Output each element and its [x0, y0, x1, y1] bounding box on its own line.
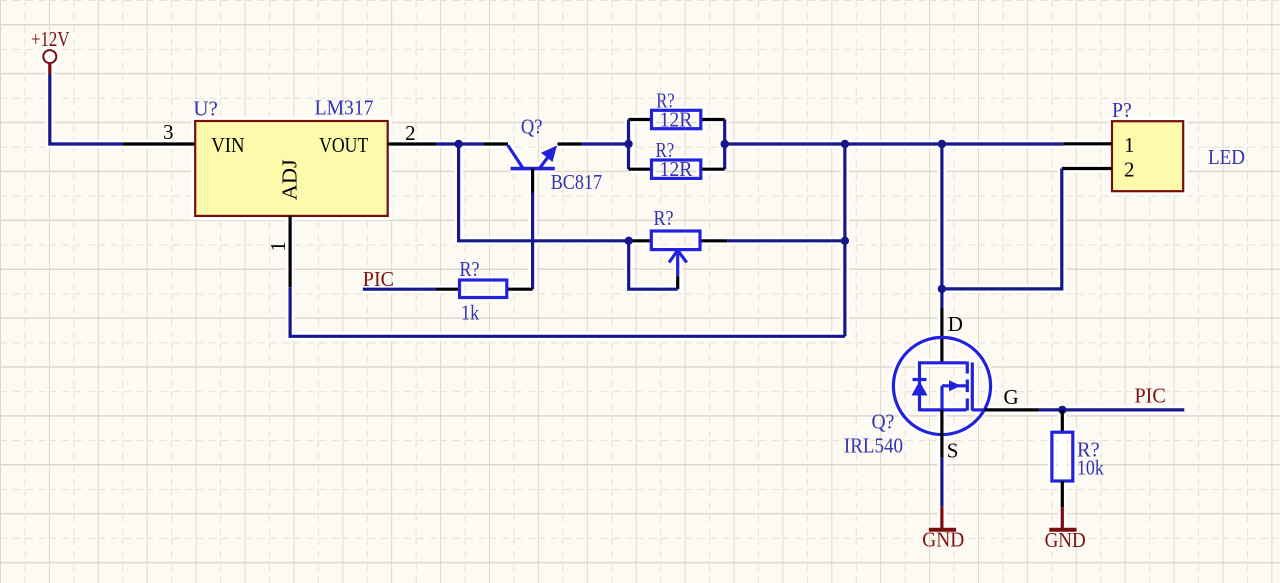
svg-text:3: 3: [163, 120, 174, 144]
resistor R? 10k: [1052, 410, 1104, 507]
P? pin 2: [1062, 158, 1135, 182]
wire P? pin2 down to drain bus: [942, 169, 1062, 289]
transistor Q? base pin: [531, 169, 534, 193]
junction VOUT node: [454, 140, 462, 148]
svg-text:VIN: VIN: [211, 133, 244, 157]
svg-text:Q?: Q?: [872, 409, 895, 433]
wire base down to 1k: [531, 193, 534, 290]
svg-text:GND: GND: [922, 528, 964, 552]
svg-text:LM317: LM317: [315, 96, 374, 120]
svg-text:1: 1: [266, 241, 290, 252]
junction drain node: [938, 285, 946, 293]
svg-text:S: S: [947, 438, 959, 462]
resistor R? 12R (bottom): [629, 138, 725, 181]
ground GND (source): [922, 506, 964, 551]
Q? IRL540 source pin: [940, 410, 943, 458]
svg-text:VOUT: VOUT: [319, 133, 368, 157]
power port +12V: [31, 27, 70, 74]
Q? IRL540 gate pin: [985, 408, 1039, 411]
svg-text:PIC: PIC: [363, 267, 394, 291]
transistor Q? IRL540 MOSFET: [844, 337, 991, 457]
transistor Q? emitter pin: [558, 142, 582, 145]
wire VOUT to node: [436, 142, 484, 145]
svg-text:BC817: BC817: [551, 170, 602, 194]
wire PIC to 1k: [363, 288, 436, 291]
wire right bus of 12R pair: [723, 120, 726, 170]
P? pin 1: [1064, 133, 1135, 157]
wire mid vertical down to ADJ bus: [843, 144, 846, 336]
wire gate to PIC: [1039, 408, 1184, 411]
svg-text:2: 2: [405, 121, 416, 145]
svg-text:U?: U?: [193, 97, 218, 121]
junction left of 12R pair: [624, 140, 632, 148]
svg-text:IRL540: IRL540: [844, 434, 903, 458]
transistor Q? IRL540 drain pin: [940, 308, 943, 363]
resistor R? 12R (top): [629, 89, 725, 132]
potentiometer wiper pin: [676, 276, 679, 289]
wire ADJ down and across: [290, 287, 845, 336]
wire halo underlay: [43, 50, 1184, 530]
svg-text:PIC: PIC: [1135, 383, 1166, 407]
svg-text:GND: GND: [1045, 528, 1086, 552]
svg-text:ADJ: ADJ: [278, 159, 302, 200]
wire emitter to 12R pair: [582, 142, 629, 145]
svg-text:2: 2: [1124, 158, 1135, 182]
wire node down to pot row: [459, 144, 629, 241]
transistor Q? BC817: [508, 115, 602, 194]
wire 12R pair to node: [725, 142, 942, 145]
wire left bus of 12R pair: [627, 120, 630, 170]
junction mid bus: [841, 140, 849, 148]
svg-text:Q?: Q?: [521, 115, 543, 139]
svg-text:1: 1: [1124, 133, 1135, 157]
svg-text:R?: R?: [654, 206, 674, 230]
op-amp U? LM317 body: [195, 121, 388, 216]
junction drain bus: [938, 140, 946, 148]
svg-text:D: D: [948, 312, 963, 336]
transistor Q? collector pin: [484, 142, 508, 145]
svg-text:P?: P?: [1112, 98, 1132, 122]
svg-text:10k: 10k: [1077, 456, 1104, 480]
svg-text:12R: 12R: [660, 157, 693, 181]
connector P? body: [1112, 121, 1183, 191]
wire to P? pin1: [942, 142, 1064, 145]
U1 pin 3 VIN: [123, 120, 196, 144]
wire +12V to VIN pin: [50, 74, 123, 144]
svg-text:1k: 1k: [461, 301, 480, 325]
wire pot right to mid vertical: [727, 239, 845, 242]
potentiometer R?: [629, 206, 728, 276]
junction pot left: [625, 237, 633, 245]
svg-text:R?: R?: [460, 257, 480, 281]
svg-text:LED: LED: [1208, 145, 1245, 169]
wire source to GND: [940, 458, 943, 507]
junction right of 12R pair: [721, 140, 729, 148]
ground GND (10k): [1045, 507, 1086, 552]
svg-text:12R: 12R: [660, 107, 693, 131]
wire wiper loop to pot left: [629, 241, 678, 289]
svg-text:G: G: [1004, 385, 1019, 409]
U1 pin 2 VOUT: [388, 121, 436, 145]
svg-text:+12V: +12V: [31, 27, 70, 51]
resistor R? 1k: [436, 257, 533, 325]
junction gate node: [1058, 406, 1066, 414]
U1 pin 1 ADJ: [266, 216, 290, 287]
wire drain bus vertical: [940, 144, 943, 308]
junction pot right: [841, 237, 849, 245]
